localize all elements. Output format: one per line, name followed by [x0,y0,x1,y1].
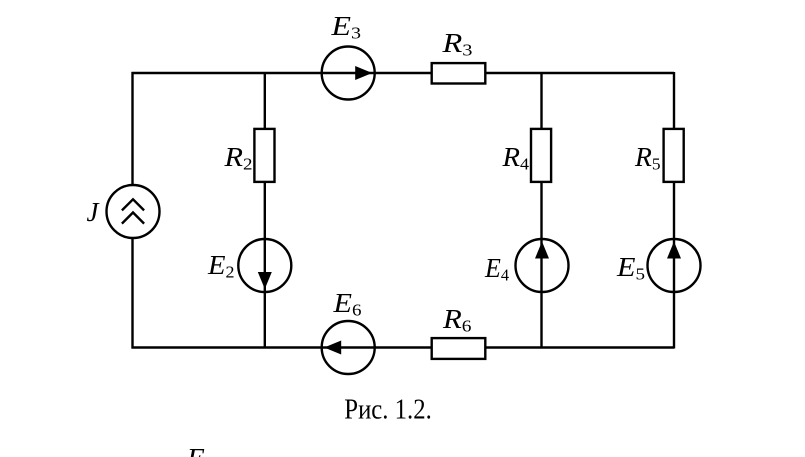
resistor R6 [432,338,486,359]
svg-text:J: J [87,197,101,227]
svg-text:R6: R6 [442,304,472,336]
svg-text:E3: E3 [330,11,361,43]
wire left side upper segment [131,72,133,185]
wire top side [132,72,675,74]
EMF source E6 [322,321,375,374]
svg-text:E5: E5 [616,252,645,284]
resistor R5 [664,129,684,182]
resistor R2 [254,129,274,182]
svg-text:E4: E4 [484,253,509,285]
wire branch R4-E4 [540,73,542,348]
wire bottom side [132,346,675,348]
wire right side R5-E5 [673,72,675,349]
resistor R4 [531,129,551,182]
current source J [107,185,160,238]
EMF source E3 [322,47,375,100]
wire left side lower segment [131,239,133,349]
EMF source E5 [648,239,701,292]
wire branch R2-E2 [264,73,266,348]
resistor R3 [432,63,486,83]
svg-text:R2: R2 [223,142,252,174]
svg-text:R4: R4 [501,142,529,174]
EMF source E4 [516,239,569,292]
svg-text:Рис. 1.2.: Рис. 1.2. [344,395,432,426]
svg-text:E6: E6 [332,288,361,320]
svg-text:E: E [186,443,206,457]
svg-text:R3: R3 [441,28,472,60]
svg-text:R5: R5 [634,142,661,174]
svg-text:E2: E2 [207,250,235,282]
EMF source E2 [238,239,291,292]
